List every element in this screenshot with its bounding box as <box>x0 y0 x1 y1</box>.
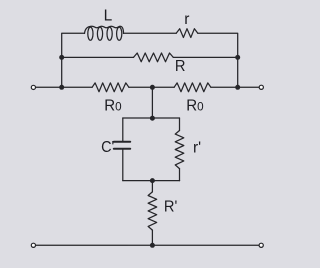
node right vertical / R branch <box>235 55 240 60</box>
svg-text:C': C' <box>101 139 114 156</box>
capacitor C' bottom plate <box>114 148 130 150</box>
wire R branch left <box>62 56 134 58</box>
node left vertical / R branch <box>59 55 64 60</box>
svg-text:r: r <box>184 11 189 28</box>
wire r to top right corner <box>198 33 238 87</box>
svg-text:R0: R0 <box>104 98 122 115</box>
resistor R <box>134 53 174 62</box>
wire r' branch upper <box>179 118 181 131</box>
terminal middle right <box>259 85 263 89</box>
resistor R0 left <box>92 83 129 92</box>
resistor r <box>176 29 198 38</box>
resistor R' <box>148 192 157 230</box>
wire middle line center <box>129 86 174 88</box>
inductor loop 1 <box>88 27 93 40</box>
wire middle line left <box>36 86 93 88</box>
svg-text:L: L <box>104 7 113 24</box>
resistor r' <box>175 131 184 169</box>
node left vertical / middle line <box>59 85 64 90</box>
wire top left corner to inductor <box>62 33 85 87</box>
wire box top <box>123 117 180 119</box>
wire r' branch lower <box>179 169 181 181</box>
wire cap branch upper <box>122 118 124 141</box>
terminal bottom right <box>259 243 263 247</box>
wire R' to bottom line <box>151 230 153 245</box>
svg-text:R': R' <box>164 199 177 216</box>
node bottom line <box>150 243 155 248</box>
wire middle line right <box>211 86 259 88</box>
terminal bottom left <box>31 243 35 247</box>
wire stub middle to box top <box>151 87 153 118</box>
inductor loop 3 <box>107 27 112 40</box>
svg-text:r': r' <box>193 139 201 156</box>
wire cap branch lower <box>122 150 124 181</box>
wire box bottom <box>123 180 180 182</box>
terminal middle left <box>31 85 35 89</box>
wire R branch right <box>173 56 237 58</box>
node right vertical / middle line <box>235 85 240 90</box>
wire inductor to resistor r <box>124 32 177 34</box>
node box bottom <box>150 178 155 183</box>
capacitor C' top plate <box>114 141 130 143</box>
resistor R0 right <box>174 83 211 92</box>
node middle line / stub <box>150 85 155 90</box>
inductor loop 2 <box>97 27 102 40</box>
svg-text:R: R <box>175 58 186 75</box>
wire stub box bottom to R' <box>151 181 153 192</box>
svg-text:R0: R0 <box>186 98 204 115</box>
node box top <box>150 116 155 121</box>
wire bottom line <box>36 244 260 246</box>
inductor L top band <box>85 26 124 33</box>
inductor loop 4 <box>117 27 122 40</box>
